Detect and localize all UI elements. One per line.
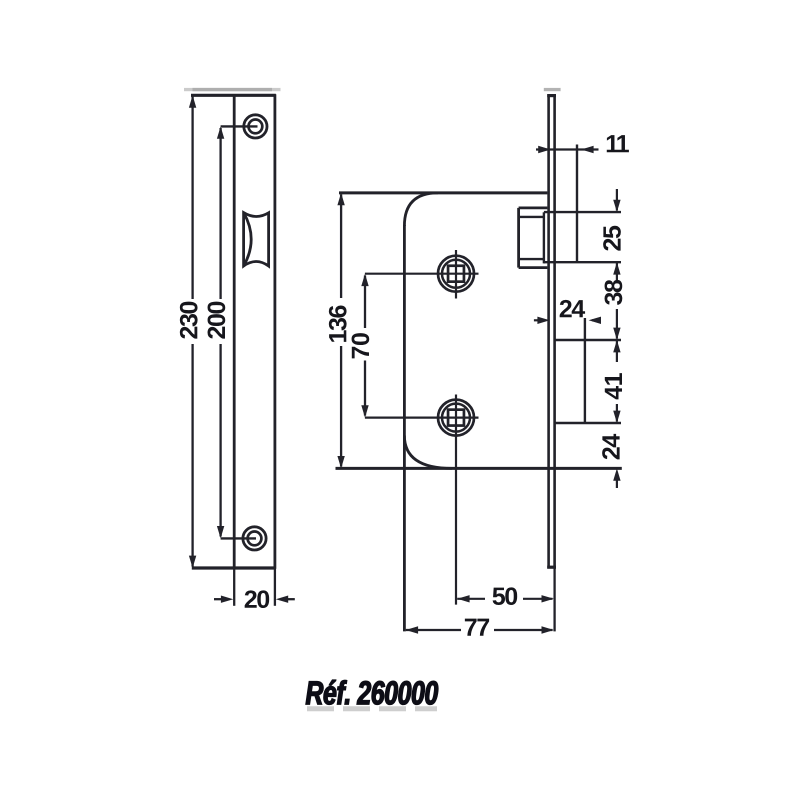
- faceplate front view left edge: [233, 94, 236, 569]
- latch bolt tail top edge: [519, 206, 548, 209]
- label 230: [180, 302, 198, 339]
- faceplate side view bottom cap: [547, 566, 556, 569]
- latch bolt tail bottom edge: [519, 266, 548, 269]
- extension line below plate left: [233, 568, 235, 606]
- label 20: [245, 590, 270, 608]
- chain line below 262: [616, 262, 618, 283]
- screw hole top inner circle: [249, 120, 263, 134]
- faceplate side view left line: [547, 94, 550, 568]
- dimension 11 right arrow: [581, 146, 593, 153]
- lock case top edge: [339, 191, 547, 194]
- leader to bottom screw center: [221, 537, 256, 539]
- screw hole top outer circle: [244, 115, 267, 138]
- dimension 41 arrow up: [613, 340, 620, 352]
- faceplate side view top cap: [547, 94, 556, 97]
- screw hole bottom inner circle: [248, 532, 262, 546]
- label 41: [605, 373, 622, 399]
- follower hub bottom crosshair vertical and 50 extension: [455, 395, 457, 605]
- latch bolt head face and 11 extension: [576, 145, 578, 263]
- dimension 136 arrow up: [337, 193, 344, 205]
- dimension 77 left arrow: [406, 626, 418, 633]
- dimension 50 line right segment: [523, 598, 553, 600]
- gray scan bar above side faceplate: [544, 88, 561, 91]
- dimension 24 top line right part: [592, 319, 599, 321]
- dimension 200 line lower segment: [219, 344, 221, 537]
- cylinder case box bottom edge and 41 extension: [555, 422, 621, 424]
- gray dashed scan underline: [307, 706, 437, 711]
- screw hole bottom outer circle: [243, 527, 266, 550]
- dimension 38 arrow down: [613, 328, 620, 340]
- dimension 230 line upper segment: [191, 97, 193, 300]
- dimension 136 arrow down: [337, 456, 344, 468]
- latch bolt head bottom edge and 25 extension: [544, 261, 621, 263]
- latch bolt tail inner top line: [519, 216, 544, 218]
- follower hub top outer circle: [438, 256, 474, 292]
- reference text Réf. 260000: [306, 680, 438, 705]
- dimension 200 line upper segment: [219, 128, 221, 299]
- follower hub top crosshair horizontal: [365, 273, 479, 275]
- dimension 24 top line left part: [534, 319, 541, 321]
- extension line faceplate right bottom: [553, 568, 555, 631]
- lock case bottom edge: [336, 467, 622, 470]
- latch cutout outline: [244, 213, 269, 266]
- label 11: [607, 135, 629, 152]
- dimension 136 line lower segment: [340, 346, 342, 467]
- label 200: [208, 302, 226, 339]
- cylinder case box top edge and 38 extension: [555, 339, 621, 341]
- dimension 20 right arrow: [287, 598, 295, 600]
- dimension 50 line left segment: [457, 598, 485, 600]
- dimension 25 upper arrow: [616, 189, 618, 211]
- dimension 41 lower shaft: [616, 404, 618, 422]
- faceplate front view top edge: [191, 94, 276, 97]
- follower hub top inner circle: [442, 260, 470, 288]
- latch bolt inner vertical line: [543, 212, 545, 263]
- follower hub top crosshair vertical: [455, 250, 457, 299]
- lock case rounded corner bottom-left: [404, 436, 452, 469]
- dimension 25 lower arrow: [613, 262, 620, 274]
- dimension 50 right arrow: [542, 595, 554, 602]
- dimension 77 line left segment: [406, 629, 461, 631]
- dimension 230 arrow up: [189, 95, 196, 107]
- dimension 41 upper shaft: [616, 340, 618, 362]
- label 70: [352, 333, 370, 358]
- latch bolt tail inner bottom line: [519, 258, 544, 260]
- dimension 230 arrow down: [189, 556, 196, 568]
- lock case left edge and 77 extension: [403, 225, 406, 631]
- latchbolt curved face: [244, 213, 252, 266]
- lock case rounded corner top-left: [404, 193, 438, 226]
- dimension 136 line upper segment: [340, 195, 342, 299]
- dimension 50 left arrow: [457, 595, 469, 602]
- cylinder case box right edge: [584, 318, 586, 423]
- follower hub bottom outer circle: [438, 400, 474, 436]
- leader to top screw center: [221, 125, 258, 127]
- faceplate front view bottom edge: [192, 566, 276, 569]
- dimension 11 left arrow: [538, 146, 550, 153]
- label 25: [603, 226, 621, 251]
- dimension 70 arrow up: [361, 274, 368, 286]
- dimension 200 arrow up: [217, 126, 224, 138]
- follower hub bottom square spindle hole: [448, 410, 464, 426]
- label 24 top: [560, 300, 585, 317]
- dimension 70 line upper segment: [364, 276, 366, 329]
- faceplate front view right edge: [273, 94, 276, 569]
- faceplate side view right line: [553, 94, 556, 568]
- label 38: [605, 280, 623, 305]
- extension line below plate right: [274, 568, 276, 606]
- label 50: [493, 587, 518, 605]
- latch bolt head top edge and 25 extension: [544, 211, 621, 213]
- follower hub top square spindle hole: [448, 266, 464, 282]
- dimension 70 arrow down: [361, 405, 368, 417]
- dimension 41 arrow down: [613, 411, 620, 423]
- follower hub bottom crosshair horizontal: [365, 417, 479, 419]
- latch bolt tail left edge: [517, 208, 520, 268]
- dimension 77 line right segment: [494, 629, 553, 631]
- dimension 20 left arrow: [214, 598, 223, 600]
- dimension 230 line lower segment: [191, 344, 193, 567]
- label 77: [465, 619, 489, 636]
- dimension 77 right arrow: [542, 626, 554, 633]
- dimension 38 lower shaft: [616, 309, 618, 339]
- dimension 200 arrow down: [217, 526, 224, 538]
- dimension 24 chain arrow up at body bottom: [613, 468, 620, 480]
- dimension 11 line: [536, 148, 599, 150]
- label 136: [329, 305, 347, 341]
- gray scan bar above front faceplate: [184, 88, 281, 91]
- follower hub bottom inner circle: [442, 404, 470, 432]
- label 24 chain: [602, 434, 619, 459]
- dimension 70 line lower segment: [364, 361, 366, 416]
- dimension 24 chain lower shaft: [616, 479, 618, 488]
